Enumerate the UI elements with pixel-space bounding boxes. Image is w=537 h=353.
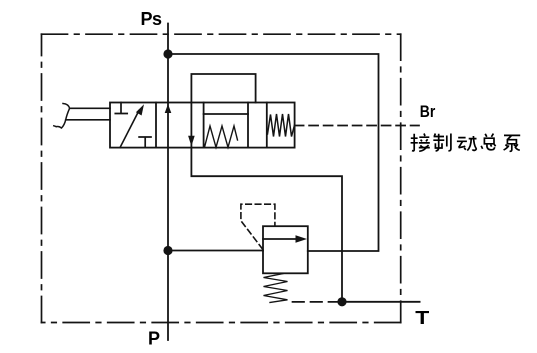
label Ps: [141, 9, 163, 29]
node: junction dot top: [163, 49, 172, 58]
valve V1 position 2: flow path down-arrow: [188, 136, 195, 147]
char 泵: [504, 135, 521, 151]
label Br: [420, 102, 436, 121]
lever L1 push rod: [66, 108, 110, 120]
wire: main vertical Ps-P line: [167, 24, 169, 341]
relief valve RV1 spring drain (dashed): [293, 301, 343, 303]
wire: to T port: [342, 301, 420, 303]
relief valve RV1 flow path arrow: [263, 238, 300, 240]
valve V1 return spring: [205, 126, 238, 147]
label T: [415, 308, 429, 328]
valve V1 position 2: flow path up-arrow: [165, 104, 172, 113]
label P: [148, 329, 160, 349]
node: junction dot on main line: [163, 246, 172, 255]
valve V1 body: [110, 103, 295, 148]
svg-text:Ps: Ps: [141, 9, 163, 29]
node: junction dot bottom right: [337, 297, 346, 306]
wire: valve outlet jump-over rectangle: [191, 74, 255, 103]
char 动: [457, 138, 467, 150]
lever L1 handle: [54, 104, 70, 129]
valve V1 position 2: flow line B through valve: [190, 103, 192, 148]
valve V1 spring chamber seat: [204, 113, 248, 115]
svg-text:T: T: [415, 308, 429, 328]
valve V1 pilot spring (right cell): [268, 114, 295, 137]
relief valve RV1 pilot line (dashed): [241, 204, 275, 249]
valve V1 position 1: lever-actuation arrow: [120, 111, 139, 148]
char 总: [481, 134, 495, 150]
char 制: [433, 134, 444, 152]
char 接: [411, 134, 418, 151]
wire: Ps to relief valve right port: [168, 54, 379, 251]
wire: valve outlet down to relief/T network: [191, 148, 342, 302]
relief valve RV1 spring: [264, 274, 288, 303]
svg-text:Br: Br: [420, 102, 436, 121]
pilot line to Br (dashed): [295, 125, 419, 127]
svg-text:P: P: [148, 329, 160, 349]
relief valve RV1 body: [263, 226, 308, 273]
wire: main line to relief valve inlet: [168, 250, 263, 252]
valve V1 position 1: blocked port top: [115, 103, 127, 114]
label 接制动总泵 (hand-drawn strokes): [411, 134, 521, 152]
enclosure dash-dot border: [42, 33, 401, 35]
valve V1 position 1: blocked port bottom: [139, 137, 151, 148]
